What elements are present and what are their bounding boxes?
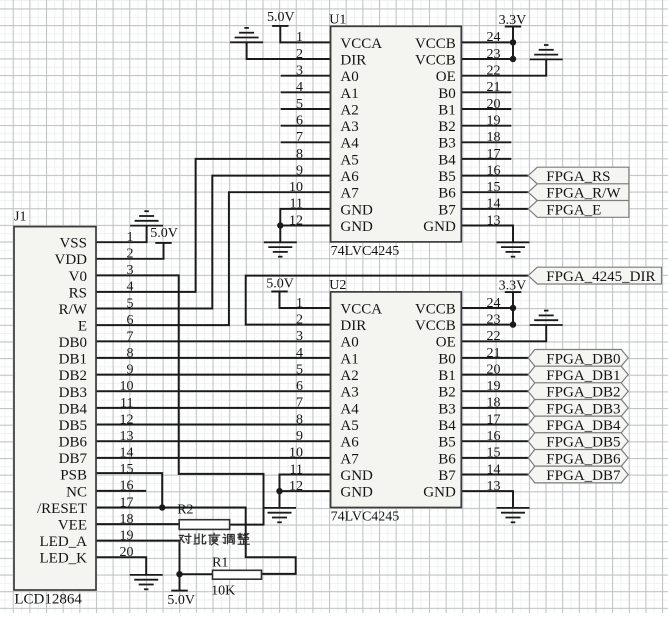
svg-text:A3: A3	[340, 385, 358, 401]
port FPGA_4245_DIR	[528, 267, 661, 284]
svg-text:12: 12	[120, 412, 134, 427]
svg-text:B7: B7	[438, 202, 456, 218]
svg-text:VCCA: VCCA	[340, 36, 382, 52]
svg-text:FPGA_DB7: FPGA_DB7	[546, 468, 621, 484]
wire DB0: J1 pin7 to U2 A0	[96, 340, 331, 342]
value label "contrast adjust" (Chinese)	[179, 533, 249, 545]
ground at LED_K	[130, 574, 163, 576]
svg-text:2: 2	[127, 247, 134, 262]
svg-text:B1: B1	[438, 102, 456, 118]
svg-text:A3: A3	[340, 119, 358, 135]
svg-text:5.0V: 5.0V	[267, 10, 295, 25]
svg-text:GND: GND	[340, 468, 373, 484]
svg-text:8: 8	[127, 346, 134, 361]
svg-text:B4: B4	[438, 152, 456, 168]
svg-text:VSS: VSS	[59, 236, 87, 252]
wire U2 B6 to FPGA_DB6	[461, 457, 528, 459]
resistor R2	[179, 520, 229, 530]
svg-text:VCCB: VCCB	[415, 301, 456, 317]
svg-text:OE: OE	[436, 69, 456, 85]
wire DB5: J1 pin12 to U2 A5	[96, 424, 331, 426]
ground at U2 OE	[530, 324, 563, 326]
svg-text:E: E	[78, 319, 87, 335]
svg-text:DB6: DB6	[59, 435, 88, 451]
svg-text:17: 17	[487, 147, 501, 162]
svg-text:OE: OE	[436, 335, 456, 351]
power 5.0V at U2 pin1	[271, 291, 287, 293]
svg-text:A2: A2	[340, 102, 358, 118]
U1 pin18 stub B3	[461, 141, 511, 143]
svg-text:18: 18	[120, 512, 134, 527]
wire U1 B7 to FPGA_E	[461, 208, 528, 210]
port FPGA_DB5	[528, 433, 628, 450]
svg-text:13: 13	[120, 429, 134, 444]
power 3.3V at U2	[505, 291, 521, 293]
svg-text:5: 5	[127, 296, 134, 311]
svg-text:5.0V: 5.0V	[150, 226, 178, 241]
svg-text:10K: 10K	[211, 583, 235, 598]
port FPGA_RS	[528, 167, 629, 184]
svg-text:5: 5	[296, 362, 303, 377]
port FPGA_DB0	[528, 350, 628, 367]
wire U1 DIR to ground	[247, 42, 331, 59]
svg-text:74LVC4245: 74LVC4245	[331, 244, 400, 259]
svg-text:A1: A1	[340, 86, 358, 102]
svg-text:DB2: DB2	[59, 368, 87, 384]
svg-text:13: 13	[487, 213, 501, 228]
port FPGA_DB4	[528, 416, 628, 433]
svg-text:12: 12	[289, 213, 303, 228]
svg-text:7: 7	[127, 330, 134, 345]
svg-text:FPGA_DB5: FPGA_DB5	[546, 435, 620, 451]
svg-text:19: 19	[120, 528, 134, 543]
wire R/W: J1 pin5 to U1 A6	[96, 176, 331, 309]
U1 pin17 stub B4	[461, 158, 511, 160]
wire RS: J1 pin4 to U1 A5	[96, 159, 331, 292]
svg-text:A0: A0	[340, 335, 358, 351]
svg-text:21: 21	[487, 80, 501, 95]
wire U2 VCCB pins 24/23 to 3.3V	[512, 292, 514, 325]
svg-text:9: 9	[296, 163, 303, 178]
ground at U1 OE	[530, 58, 563, 60]
power 5.0V at bottom	[171, 590, 187, 592]
wire DB1: J1 pin8 to U2 A1	[96, 357, 331, 359]
svg-text:DB5: DB5	[59, 418, 87, 434]
svg-text:6: 6	[296, 113, 303, 128]
junction 3.3V pin24	[510, 39, 516, 45]
wire R1 left	[180, 573, 213, 575]
svg-text:1: 1	[127, 230, 134, 245]
svg-text:13: 13	[487, 479, 501, 494]
svg-text:18: 18	[487, 130, 501, 145]
svg-text:10: 10	[289, 180, 303, 195]
ground at J1 VSS	[130, 225, 163, 227]
wire PSB down to /RESET net	[96, 473, 162, 507]
wire U1 B5 to FPGA_RS	[461, 175, 528, 177]
svg-text:4: 4	[296, 80, 303, 95]
svg-text:FPGA_4245_DIR: FPGA_4245_DIR	[546, 269, 655, 285]
U1 pin7 stub A4	[281, 141, 331, 143]
svg-text:B6: B6	[438, 451, 456, 467]
svg-text:PSB: PSB	[60, 468, 87, 484]
svg-text:GND: GND	[423, 485, 456, 501]
wire LED_K to ground	[96, 557, 146, 575]
svg-text:B4: B4	[438, 418, 456, 434]
wire U2 GND pins 11/12	[280, 475, 331, 508]
svg-text:9: 9	[127, 363, 134, 378]
wire U2 B5 to FPGA_DB5	[461, 440, 528, 442]
port FPGA_E	[528, 201, 629, 218]
wire U1 VCCB pins 24/23 to 3.3V	[512, 27, 514, 60]
svg-text:20: 20	[487, 97, 501, 112]
svg-text:A1: A1	[340, 351, 358, 367]
wire DB6: J1 pin13 to U2 A6	[96, 440, 331, 442]
svg-text:U1: U1	[329, 13, 346, 28]
svg-text:VCCB: VCCB	[415, 36, 456, 52]
power 5.0V at U1 pin1	[272, 25, 288, 27]
svg-text:GND: GND	[340, 202, 373, 218]
svg-text:21: 21	[487, 346, 501, 361]
svg-text:2: 2	[296, 312, 303, 327]
svg-text:3.3V: 3.3V	[499, 13, 527, 28]
svg-text:LED_A: LED_A	[40, 534, 88, 550]
wire U2 OE to ground	[461, 325, 546, 341]
svg-text:A6: A6	[340, 435, 359, 451]
wire LED_A down to 5.0V	[96, 541, 180, 591]
power 3.3V at U1	[505, 26, 521, 28]
resistor R1	[213, 570, 262, 579]
svg-text:B6: B6	[438, 186, 456, 202]
svg-text:B0: B0	[438, 86, 456, 102]
wire V0: J1 pin3 to R2 right	[96, 275, 264, 524]
svg-text:5.0V: 5.0V	[167, 593, 195, 608]
junction LED_A / R1 left	[176, 571, 182, 577]
junction U2 GND	[276, 488, 282, 494]
wire U1 OE to ground	[461, 59, 546, 75]
wire U2 GND pin13 to ground	[461, 491, 513, 508]
svg-text:FPGA_E: FPGA_E	[546, 202, 601, 218]
wire U2 B2 to FPGA_DB2	[461, 390, 528, 392]
svg-text:11: 11	[290, 197, 303, 212]
svg-text:A4: A4	[340, 401, 359, 417]
svg-text:VCCA: VCCA	[340, 301, 382, 317]
svg-text:DIR: DIR	[340, 52, 366, 68]
svg-text:A5: A5	[340, 418, 358, 434]
svg-text:2: 2	[296, 47, 303, 62]
svg-text:DB1: DB1	[59, 352, 87, 368]
svg-text:23: 23	[487, 47, 501, 62]
wire U2 B3 to FPGA_DB3	[461, 407, 528, 409]
svg-text:10: 10	[289, 446, 303, 461]
svg-text:20: 20	[120, 545, 134, 560]
ground under U1 pin13	[497, 241, 530, 243]
svg-text:B5: B5	[438, 435, 456, 451]
svg-text:VCCB: VCCB	[415, 318, 456, 334]
svg-text:A4: A4	[340, 136, 359, 152]
wire DB3: J1 pin10 to U2 A3	[96, 390, 331, 392]
svg-text:FPGA_DB0: FPGA_DB0	[546, 351, 620, 367]
U1 pin19 stub B2	[461, 125, 511, 127]
svg-text:15: 15	[487, 446, 501, 461]
svg-text:15: 15	[120, 462, 134, 477]
wire U1 GND pin13 to ground	[461, 226, 513, 243]
svg-text:LCD12864: LCD12864	[14, 592, 82, 608]
svg-text:DB4: DB4	[59, 401, 88, 417]
wire /RESET: J1 pin17 to R1 right	[96, 508, 296, 574]
svg-text:3: 3	[127, 263, 134, 278]
svg-text:11: 11	[120, 396, 133, 411]
port FPGA_DB2	[528, 383, 628, 400]
wire VEE to R2 left	[96, 523, 179, 525]
ground under U2 pin13	[497, 507, 530, 509]
junction PSB //RESET	[159, 504, 165, 510]
svg-text:J1: J1	[14, 210, 26, 225]
svg-text:FPGA_DB2: FPGA_DB2	[546, 385, 620, 401]
svg-text:3: 3	[296, 329, 303, 344]
wire E: J1 pin6 to U1 A7	[96, 192, 331, 325]
junction U2 3.3V pin23	[510, 321, 516, 327]
svg-text:22: 22	[487, 64, 501, 79]
svg-text:VCCB: VCCB	[415, 52, 456, 68]
svg-text:A6: A6	[340, 169, 359, 185]
wire U1 VCCA	[280, 26, 330, 43]
svg-text:R1: R1	[212, 555, 228, 570]
svg-text:A7: A7	[340, 451, 359, 467]
svg-text:16: 16	[120, 479, 134, 494]
svg-text:8: 8	[296, 412, 303, 427]
U1 pin6 stub A3	[281, 125, 331, 127]
svg-text:14: 14	[487, 462, 501, 477]
svg-text:FPGA_DB3: FPGA_DB3	[546, 401, 620, 417]
IC U2 74LVC4245	[331, 292, 462, 508]
svg-text:16: 16	[487, 429, 501, 444]
svg-text:19: 19	[487, 379, 501, 394]
svg-text:VDD: VDD	[55, 252, 88, 268]
svg-text:DIR: DIR	[340, 318, 366, 334]
svg-text:A5: A5	[340, 152, 358, 168]
svg-text:3.3V: 3.3V	[499, 279, 527, 294]
svg-text:18: 18	[487, 396, 501, 411]
svg-text:B2: B2	[438, 385, 456, 401]
svg-text:/RESET: /RESET	[37, 501, 87, 517]
svg-text:17: 17	[487, 412, 501, 427]
svg-text:R/W: R/W	[59, 302, 88, 318]
wire VDD to 5.0V	[96, 243, 164, 259]
svg-text:9: 9	[296, 429, 303, 444]
svg-text:14: 14	[487, 197, 501, 212]
svg-text:V0: V0	[69, 269, 87, 285]
svg-text:1: 1	[296, 30, 303, 45]
wire DB4: J1 pin11 to U2 A4	[96, 407, 331, 409]
svg-text:17: 17	[120, 495, 134, 510]
svg-text:6: 6	[296, 379, 303, 394]
svg-text:14: 14	[120, 446, 134, 461]
port FPGA_R/W	[528, 184, 629, 201]
ground at U1 DIR	[230, 41, 263, 43]
svg-text:B2: B2	[438, 119, 456, 135]
U1 pin4 stub A1	[281, 91, 331, 93]
wire U2 VCCA	[280, 292, 331, 309]
svg-text:FPGA_R/W: FPGA_R/W	[546, 186, 621, 202]
U1 pin5 stub A2	[281, 108, 331, 110]
junction U1 GND	[277, 222, 283, 228]
svg-text:16: 16	[487, 163, 501, 178]
svg-text:U2: U2	[329, 278, 346, 293]
svg-text:6: 6	[127, 313, 134, 328]
svg-text:FPGA_DB1: FPGA_DB1	[546, 368, 620, 384]
svg-text:NC: NC	[66, 484, 87, 500]
svg-text:GND: GND	[423, 219, 456, 235]
port FPGA_DB3	[528, 400, 628, 417]
svg-text:A7: A7	[340, 186, 359, 202]
svg-text:VEE: VEE	[58, 518, 87, 534]
svg-text:15: 15	[487, 180, 501, 195]
IC U1 74LVC4245	[331, 26, 462, 242]
svg-text:FPGA_RS: FPGA_RS	[546, 169, 610, 185]
svg-text:A0: A0	[340, 69, 358, 85]
wire VSS to ground	[96, 226, 147, 243]
svg-text:7: 7	[296, 130, 303, 145]
svg-text:R2: R2	[177, 503, 193, 518]
svg-text:23: 23	[487, 312, 501, 327]
svg-text:1: 1	[296, 296, 303, 311]
svg-text:B0: B0	[438, 351, 456, 367]
wire DB7: J1 pin14 to U2 A7	[96, 457, 331, 459]
U1 pin21 stub B0	[461, 91, 511, 93]
connector J1 LCD12864	[14, 227, 96, 590]
svg-text:4: 4	[127, 280, 134, 295]
wire U1 GND pins 11/12	[280, 209, 330, 242]
wire U2 B4 to FPGA_DB4	[461, 424, 528, 426]
svg-text:A2: A2	[340, 368, 358, 384]
svg-text:B3: B3	[438, 136, 456, 152]
wire U2 B0 to FPGA_DB0	[461, 357, 528, 359]
wire U2 B1 to FPGA_DB1	[461, 374, 528, 376]
svg-text:GND: GND	[340, 485, 373, 501]
svg-text:B7: B7	[438, 468, 456, 484]
U1 pin20 stub B1	[461, 108, 511, 110]
power 5.0V at J1 VDD	[155, 242, 171, 244]
svg-text:24: 24	[487, 296, 501, 311]
wire U1 B6 to FPGA_R/W	[461, 191, 528, 193]
svg-text:12: 12	[289, 479, 303, 494]
port FPGA_DB1	[528, 366, 628, 383]
svg-text:4: 4	[296, 346, 303, 361]
svg-text:5: 5	[296, 97, 303, 112]
ground under U1	[264, 241, 297, 243]
svg-text:74LVC4245: 74LVC4245	[331, 510, 400, 525]
svg-text:DB0: DB0	[59, 335, 87, 351]
svg-text:GND: GND	[340, 219, 373, 235]
svg-text:7: 7	[296, 396, 303, 411]
U1 pin3 stub A0	[281, 75, 331, 77]
junction 3.3V pin23	[510, 56, 516, 62]
svg-text:20: 20	[487, 362, 501, 377]
svg-text:10: 10	[120, 379, 134, 394]
port FPGA_DB7	[528, 466, 628, 483]
svg-text:5.0V: 5.0V	[266, 277, 294, 292]
svg-text:RS: RS	[69, 285, 87, 301]
svg-text:11: 11	[290, 462, 303, 477]
svg-text:DB3: DB3	[59, 385, 87, 401]
junction U2 3.3V pin24	[510, 305, 516, 311]
svg-text:8: 8	[296, 147, 303, 162]
svg-text:22: 22	[487, 329, 501, 344]
wire U2 B7 to FPGA_DB7	[461, 474, 528, 476]
wire U2 DIR to FPGA_4245_DIR	[246, 276, 529, 325]
svg-text:LED_K: LED_K	[40, 551, 88, 567]
svg-text:3: 3	[296, 64, 303, 79]
svg-text:B3: B3	[438, 401, 456, 417]
svg-text:FPGA_DB6: FPGA_DB6	[546, 451, 621, 467]
wire NC stub	[96, 490, 146, 492]
svg-text:24: 24	[487, 30, 501, 45]
svg-text:DB7: DB7	[59, 451, 88, 467]
wire DB2: J1 pin9 to U2 A2	[96, 374, 331, 376]
ground under U2	[263, 507, 296, 509]
svg-text:B1: B1	[438, 368, 456, 384]
svg-text:FPGA_DB4: FPGA_DB4	[546, 418, 621, 434]
port FPGA_DB6	[528, 450, 628, 467]
svg-text:19: 19	[487, 113, 501, 128]
svg-text:B5: B5	[438, 169, 456, 185]
